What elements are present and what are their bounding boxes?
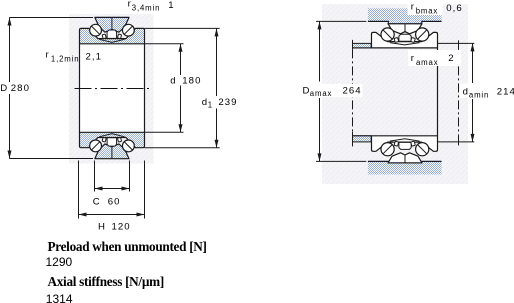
dimension d 180 : extension lines [145, 43, 184, 45]
top section: shaft washer (wide, bore side) [80, 28, 145, 43]
dimension H 120 : dimension line [79, 214, 145, 216]
svg-text:180: 180 [182, 75, 201, 86]
dimension C 60 : dimension line [95, 188, 130, 190]
top section: right ball [122, 24, 134, 36]
svg-text:264: 264 [343, 85, 362, 96]
shaft surface dash-dot line left [352, 49, 354, 131]
svg-text:280: 280 [11, 83, 30, 94]
shaft shoulder tick right top [458, 40, 460, 49]
shaft washer bottom [80, 132, 145, 147]
svg-text:120: 120 [112, 222, 131, 233]
dimension C 60 : extension lines [94, 161, 96, 192]
bottom data block [48, 239, 207, 255]
dimension damin 214 : arrowheads [471, 43, 475, 51]
dimension damin 214 : extension lines [438, 42, 475, 44]
bore surface lines right figure [353, 47, 372, 49]
dimension C 60 : arrowheads [95, 187, 103, 191]
dimension d1 239 : extension lines [145, 27, 220, 29]
housing shoulder top block [368, 8, 442, 23]
top section: left ball [90, 24, 102, 36]
right bearing bottom: left ball [381, 143, 394, 156]
top section: cage pocket [107, 30, 117, 38]
svg-text:amin: amin [469, 91, 489, 100]
cage pocket bottom [107, 138, 117, 146]
dimension H 120 : arrowheads [79, 213, 87, 217]
svg-text:1: 1 [168, 0, 174, 11]
dimension D 280 : arrowheads [8, 18, 12, 26]
svg-text:3,4min: 3,4min [132, 4, 161, 13]
dimension d 180 : arrowheads [179, 44, 183, 52]
dimension Damax 264 : label [301, 84, 363, 97]
right bearing top: cage pocket [399, 34, 411, 41]
svg-text:60: 60 [108, 197, 121, 208]
svg-text:0,6: 0,6 [446, 3, 463, 14]
right figure background halo [322, 4, 468, 184]
dimension Damax 264 : extension lines [316, 20, 366, 22]
bore cylinder rectangle [80, 44, 145, 133]
dimension D 280 : dimension line [9, 18, 11, 83]
right bearing bottom: cage bars [394, 141, 399, 146]
svg-text:239: 239 [218, 97, 237, 108]
cage bars bottom [102, 137, 106, 142]
svg-text:r: r [411, 2, 415, 13]
svg-text:C: C [93, 197, 101, 208]
housing washer pair bottom [95, 144, 129, 159]
right bearing bore rectangle [437, 48, 439, 136]
left figure background halo [69, 14, 154, 164]
left ball bottom [90, 140, 102, 152]
right bearing bottom section: shaft washer [372, 136, 438, 152]
right bearing bottom section: housing washer pair [388, 153, 422, 163]
top section: cage bar left [102, 34, 106, 39]
right bearing top: left ball [381, 28, 394, 41]
svg-text:amax: amax [416, 58, 438, 67]
right bearing top: cage bars [394, 38, 399, 43]
right bearing top: right ball [416, 28, 429, 41]
svg-text:d: d [170, 75, 176, 86]
right bearing top section: shaft washer [372, 32, 438, 48]
label ramax 2 [408, 50, 461, 66]
dimension d1 239 : dimension line [216, 28, 218, 96]
dimension d1 239 : arrowheads [215, 28, 219, 36]
svg-text:r: r [46, 50, 50, 61]
svg-text:H: H [98, 222, 106, 233]
dimension damin 214 : label [460, 84, 490, 99]
dimension Damax 264 : arrowheads [318, 21, 322, 29]
svg-text:2,1: 2,1 [86, 51, 103, 62]
label rbmax 0,6 [408, 4, 443, 16]
right bearing top section: housing washer pair [388, 24, 422, 34]
svg-text:D: D [0, 83, 8, 94]
right bearing bottom: cage pocket [399, 142, 411, 149]
top section: cage bar right [117, 34, 121, 39]
bottom section (mirror of top about y=88.05) [80, 132, 145, 158]
dimension D 280 : extension lines [10, 17, 94, 19]
dimension Damax 264 : dimension line [319, 21, 321, 81]
housing shoulder bottom block [368, 161, 442, 174]
shaft shoulder tick right bottom [458, 136, 460, 146]
right bearing bottom: right ball [416, 143, 429, 156]
right ball bottom [122, 140, 134, 152]
dimension H 120 : extension lines [78, 161, 80, 219]
dimension d1 239 : label [198, 97, 239, 109]
shaft surface dash-dot line right [458, 49, 460, 135]
svg-text:1: 1 [208, 100, 213, 109]
dimension d 180 : dimension line [180, 44, 182, 75]
svg-text:bmax: bmax [416, 7, 438, 16]
dimension damin 214 : dimension line [472, 43, 474, 83]
svg-text:214: 214 [497, 87, 514, 98]
shaft shoulder bottom rect [353, 132, 372, 147]
shaft shoulder top rect [353, 40, 372, 50]
top section: housing washer pair (split block, OD side) [95, 17, 129, 32]
svg-text:1,2min: 1,2min [51, 55, 80, 64]
svg-text:amax: amax [310, 89, 332, 98]
svg-text:2: 2 [448, 53, 454, 64]
centerline [75, 88, 150, 90]
svg-text:r: r [411, 53, 415, 64]
